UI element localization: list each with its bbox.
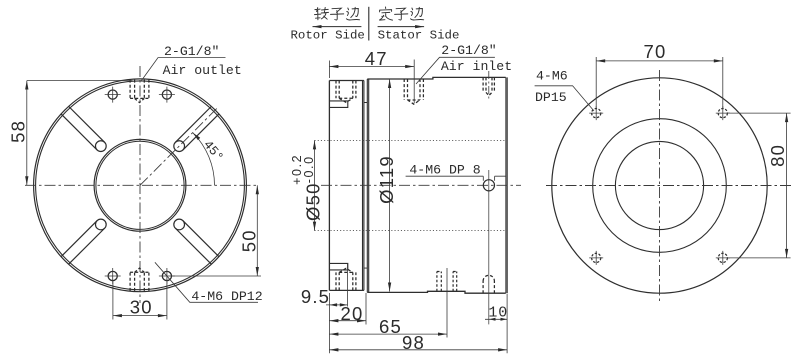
M6 hole section lines xyxy=(483,176,505,181)
arrow stator right xyxy=(378,26,425,28)
label 4-M6 DP 8 underline xyxy=(406,175,484,177)
dim 50 extension xyxy=(172,275,261,277)
arrow rotor left xyxy=(313,26,362,28)
vertical centerline xyxy=(659,70,661,302)
M6 hole bottom-right xyxy=(159,268,175,284)
M6 hole bottom-left xyxy=(105,268,121,284)
char 定 xyxy=(380,7,393,20)
dim 58 extension top xyxy=(27,80,133,82)
dim 65 extension right xyxy=(446,268,448,338)
horizontal centerline xyxy=(25,184,257,186)
M6 hole top-left xyxy=(105,87,121,103)
M6 radial hole stator top (hidden) xyxy=(483,77,494,95)
dim 47 line xyxy=(329,66,414,68)
dim 10 line xyxy=(485,318,507,320)
dim phi119 line xyxy=(389,79,391,292)
rotor step rect top xyxy=(329,101,347,108)
slot upper-left xyxy=(61,106,106,151)
svg-text:98: 98 xyxy=(402,332,425,353)
svg-text:50: 50 xyxy=(238,229,259,252)
svg-text:2-G1/8": 2-G1/8" xyxy=(441,43,496,58)
small holes on bottom pad (hidden) xyxy=(437,272,457,292)
outer circle (stator OD behind) xyxy=(34,79,247,292)
svg-text:80: 80 xyxy=(767,144,788,167)
dim 80 extensions xyxy=(728,113,791,258)
char 边 (1) xyxy=(346,7,359,20)
seal gap dashes xyxy=(364,103,367,269)
outer circle rotor flange OD xyxy=(36,81,245,290)
dim 98 line xyxy=(329,349,507,351)
G1/8 air inlet hole stator top (hidden) xyxy=(404,79,423,104)
svg-text:Ø50: Ø50 xyxy=(303,182,324,221)
dim 20 line xyxy=(329,320,366,322)
leader 4-M6 DP12 xyxy=(155,262,258,302)
M6 hole top-right xyxy=(716,106,730,120)
divider line xyxy=(368,7,370,41)
M6 radial hole top centerline xyxy=(488,71,490,100)
dim 30 line xyxy=(113,315,167,317)
slot lower-right xyxy=(174,219,219,264)
dim 70 extensions xyxy=(596,57,723,108)
svg-text:2-G1/8": 2-G1/8" xyxy=(164,44,219,59)
leader 2-G1/8 air outlet xyxy=(142,58,226,81)
M6 hole top-left xyxy=(589,106,603,120)
bore circle phi50 xyxy=(94,139,186,231)
svg-text:Air outlet: Air outlet xyxy=(163,63,242,78)
axis centerline xyxy=(321,184,521,186)
M6 hole bottom-left xyxy=(589,251,603,265)
dim 9.5 extensions xyxy=(329,264,347,309)
svg-text:65: 65 xyxy=(379,316,402,337)
G1/8 air outlet hole bottom (hidden) xyxy=(130,268,149,291)
chinese 定子边 (hand drawn) xyxy=(380,7,424,20)
dim 47 extensions xyxy=(329,60,414,104)
horizontal centerline xyxy=(546,185,793,187)
svg-text:DP15: DP15 xyxy=(535,90,567,105)
middle circle xyxy=(593,119,727,253)
M6 hole vertical centerline xyxy=(488,170,490,324)
svg-text:20: 20 xyxy=(341,303,364,324)
45 deg arc dimension xyxy=(193,133,215,186)
dim phi50 line xyxy=(314,140,316,230)
dim 70 line xyxy=(596,60,723,62)
M6 hole top-right xyxy=(159,87,175,103)
bore chamfer circle xyxy=(96,141,184,229)
stator left face double line xyxy=(367,79,368,292)
slot lower-left xyxy=(61,219,106,264)
M6 radial hole stator bottom (hidden, U shape) xyxy=(483,275,494,293)
svg-text:Air inlet: Air inlet xyxy=(441,59,512,74)
svg-text:Rotor Side: Rotor Side xyxy=(291,28,365,42)
svg-text:10: 10 xyxy=(488,305,508,322)
char 子 (1) xyxy=(331,8,344,20)
dim 50 line xyxy=(256,185,258,276)
vertical centerline xyxy=(139,66,141,303)
G1/8 hole on rotor bottom (hidden) xyxy=(336,268,356,290)
dim 80 line xyxy=(786,113,788,258)
45 deg centerline xyxy=(140,108,218,186)
char 转 xyxy=(315,8,329,20)
dim 65 line xyxy=(329,333,447,335)
M6 hole bottom-right xyxy=(716,251,730,265)
char 边 (2) xyxy=(411,7,424,20)
svg-text:-0.0: -0.0 xyxy=(302,155,316,183)
svg-text:45°: 45° xyxy=(200,137,226,164)
stator right face double line xyxy=(506,77,507,293)
svg-text:4-M6 DP12: 4-M6 DP12 xyxy=(191,289,262,304)
rotor flange outline xyxy=(329,81,364,291)
bore circle xyxy=(615,141,703,229)
dim 98 extensions xyxy=(329,294,507,353)
svg-text:4-M6: 4-M6 xyxy=(536,68,568,83)
svg-text:4-M6 DP 8: 4-M6 DP 8 xyxy=(409,162,480,177)
stator body outline xyxy=(367,77,505,293)
svg-text:70: 70 xyxy=(644,41,667,62)
rotor right face double line xyxy=(363,81,364,291)
svg-text:47: 47 xyxy=(365,48,388,69)
char 子 (2) xyxy=(395,8,408,20)
svg-text:Ø119: Ø119 xyxy=(376,155,397,204)
svg-text:9.5: 9.5 xyxy=(301,286,330,307)
svg-text:Stator Side: Stator Side xyxy=(378,28,460,42)
dim 20 extensions xyxy=(329,293,366,325)
outer circle xyxy=(552,78,767,293)
dim 58 line xyxy=(26,81,28,186)
label underline + leader xyxy=(535,86,594,111)
dim 9.5 line xyxy=(326,304,348,306)
slot upper-right xyxy=(174,106,219,151)
rotor step rect bottom xyxy=(329,263,347,270)
leader 2-G1/8 air inlet xyxy=(416,57,495,84)
svg-text:30: 30 xyxy=(130,297,153,318)
chinese 转子边 (hand drawn) xyxy=(315,7,360,20)
bore hidden dotted lines xyxy=(315,140,507,230)
M6 hole front circle xyxy=(483,180,494,191)
dim 30 extensions xyxy=(113,281,167,320)
G1/8 hole on rotor top (hidden) xyxy=(336,81,356,103)
svg-text:58: 58 xyxy=(7,120,28,143)
G1/8 air outlet hole top (hidden) xyxy=(130,80,149,103)
